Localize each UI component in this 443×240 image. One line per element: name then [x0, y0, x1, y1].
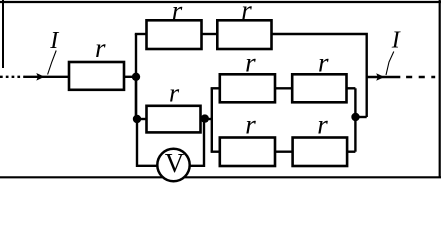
wire r8 to right bus — [347, 150, 355, 152]
input label leader line — [48, 51, 57, 75]
wire r4 to node C — [201, 118, 212, 120]
wire node A down to node B — [135, 77, 137, 119]
output label leader line — [386, 52, 394, 76]
wire node D to output riser — [355, 116, 366, 118]
output dashed wire — [406, 76, 435, 78]
wire r5 to r6 — [275, 87, 292, 89]
node A junction dot — [132, 73, 140, 81]
frame left border — [2, 0, 4, 68]
wire node A vertical riser — [135, 34, 137, 119]
wire r2 to r3 — [202, 33, 218, 35]
svg-text:V: V — [165, 148, 185, 178]
svg-text:r: r — [245, 110, 256, 140]
wire r6 to right bus — [347, 87, 356, 89]
node B junction dot — [133, 115, 141, 123]
resistor r5 — [220, 74, 275, 102]
svg-text:I: I — [391, 28, 401, 54]
svg-text:r: r — [318, 48, 329, 78]
output wire — [367, 76, 401, 78]
resistor r4 (measured) — [147, 106, 201, 133]
frame right border — [439, 0, 441, 177]
node C junction dot — [201, 114, 209, 122]
input dashed wire — [0, 76, 25, 78]
svg-text:r: r — [241, 0, 252, 25]
wire r7 to r8 — [275, 150, 293, 152]
wire top branch right — [272, 34, 367, 117]
resistor r1 — [69, 62, 124, 90]
frame top border — [0, 1, 441, 3]
svg-text:r: r — [172, 0, 183, 26]
voltmeter right wire — [191, 119, 205, 166]
resistor r3 — [217, 20, 271, 49]
svg-text:I: I — [49, 28, 59, 54]
resistor r6 — [292, 74, 346, 102]
wire right bus of parallel pair — [354, 88, 356, 151]
resistor r2 — [147, 20, 202, 49]
wire node B to r4 — [136, 118, 147, 120]
svg-text:r: r — [95, 33, 106, 63]
wire left bus of parallel pair — [211, 88, 213, 151]
node D junction dot — [351, 113, 359, 121]
frame bottom border — [0, 176, 441, 178]
wire lower branch from bus — [211, 150, 220, 152]
output current arrow — [376, 73, 384, 81]
voltmeter V1 body — [157, 149, 189, 181]
wire top branch left — [135, 33, 147, 35]
resistor r7 — [220, 138, 275, 167]
svg-text:r: r — [317, 110, 328, 140]
resistor r8 — [293, 138, 348, 167]
svg-text:r: r — [245, 48, 256, 78]
input current arrow — [36, 73, 44, 81]
wire r1 to node A — [124, 76, 136, 78]
input wire — [25, 76, 70, 78]
voltmeter left wire — [137, 119, 157, 166]
svg-text:r: r — [169, 79, 180, 108]
wire upper branch from bus — [211, 87, 220, 89]
